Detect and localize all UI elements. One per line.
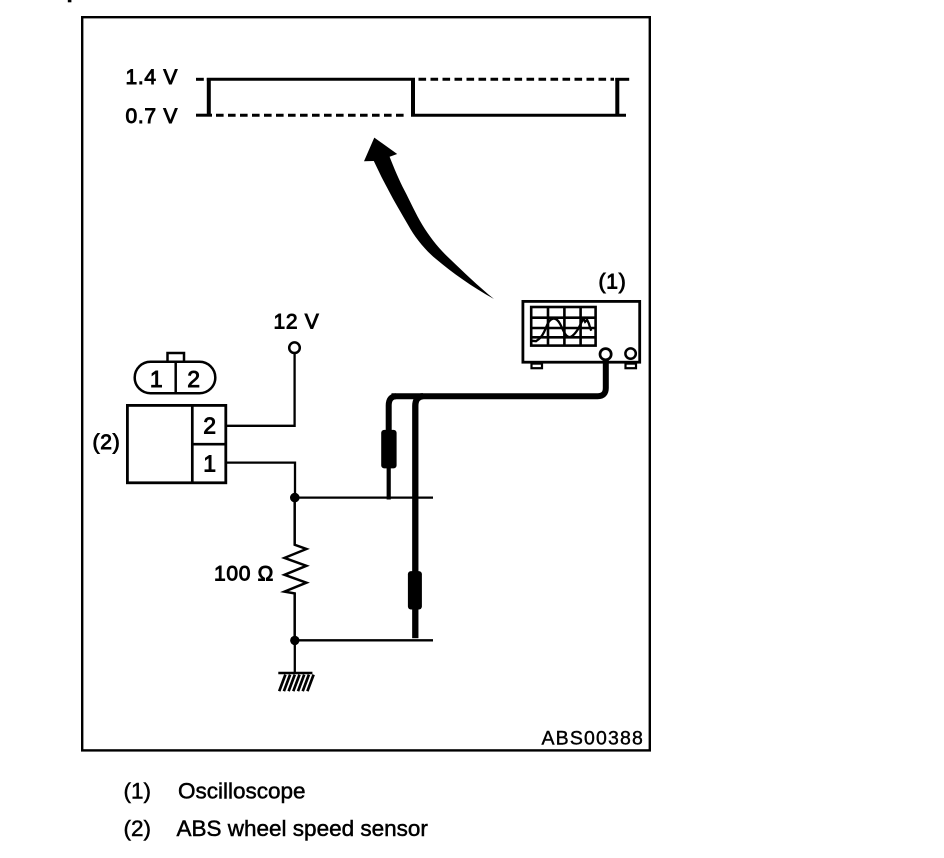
sensor box horizontal divider — [192, 443, 226, 446]
junction node B — [290, 636, 299, 645]
svg-text:12 V: 12 V — [274, 311, 320, 334]
probe cable from oscilloscope — [392, 360, 606, 396]
svg-text:2: 2 — [187, 366, 200, 392]
svg-text:1: 1 — [150, 366, 163, 392]
probe 1 cable elbow down — [389, 396, 396, 433]
wire node B to probe 2 — [295, 639, 433, 641]
waveform 1.4V dashed level (left stub) — [196, 78, 204, 81]
sensor box vertical divider — [191, 405, 194, 482]
right foot — [626, 364, 637, 369]
svg-text:(1): (1) — [124, 779, 152, 804]
12V terminal circle — [289, 342, 300, 353]
svg-text:(2): (2) — [93, 431, 121, 454]
probe 2 tip wire — [412, 608, 418, 638]
waveform 0.7V solid right — [411, 114, 626, 117]
resistor R 100ohm — [285, 500, 307, 637]
svg-text:ABS wheel speed sensor: ABS wheel speed sensor — [177, 816, 429, 841]
waveform falling edge — [411, 78, 415, 115]
connector jack 1 — [600, 349, 611, 360]
sensor connector oval — [135, 362, 216, 394]
stray mark top edge — [68, 0, 72, 2]
svg-text:1.4 V: 1.4 V — [126, 66, 179, 89]
svg-text:0.7 V: 0.7 V — [126, 105, 179, 128]
svg-text:ABS00388: ABS00388 — [542, 728, 644, 750]
svg-text:(2): (2) — [124, 816, 152, 841]
svg-text:2: 2 — [203, 413, 216, 439]
wire 12V to pin 2 — [227, 353, 295, 426]
screen grid horizontal lines — [531, 318, 595, 338]
ground symbol — [278, 673, 313, 691]
wire pin 1 to node A — [227, 463, 295, 495]
waveform rising edge right — [615, 78, 619, 115]
screen grid vertical lines — [548, 307, 581, 346]
waveform 1.4V solid right stub — [615, 78, 629, 81]
oscilloscope screen — [531, 307, 595, 346]
waveform rising edge left — [207, 78, 211, 115]
oval divider — [174, 362, 177, 394]
screen waveform trace — [532, 319, 591, 342]
probe 2 grip — [408, 571, 422, 609]
sensor connector tab — [168, 353, 185, 365]
sensor box — [127, 405, 225, 482]
wire node A to probe area — [295, 496, 433, 498]
waveform 1.4V solid top — [207, 78, 415, 81]
border frame — [82, 17, 650, 750]
waveform 1.4V dashed right — [419, 78, 615, 81]
junction node A — [290, 493, 300, 503]
oscilloscope U1 — [523, 301, 640, 368]
curved arrow to waveform — [364, 138, 494, 299]
waveform 0.7V solid left stub — [196, 114, 212, 117]
svg-text:Oscilloscope: Oscilloscope — [178, 779, 306, 804]
left foot — [532, 364, 543, 369]
svg-text:(1): (1) — [599, 271, 627, 294]
connector jack 2 — [625, 348, 635, 358]
svg-text:1: 1 — [203, 451, 216, 477]
oscilloscope body — [523, 301, 640, 362]
waveform 0.7V dashed middle — [216, 114, 407, 117]
probe 2 cable elbow down — [415, 396, 423, 573]
probe 1 grip — [381, 430, 396, 469]
svg-text:100 Ω: 100 Ω — [214, 562, 274, 585]
probe 1 tip wire — [387, 467, 391, 500]
wire node B to ground — [294, 640, 296, 672]
